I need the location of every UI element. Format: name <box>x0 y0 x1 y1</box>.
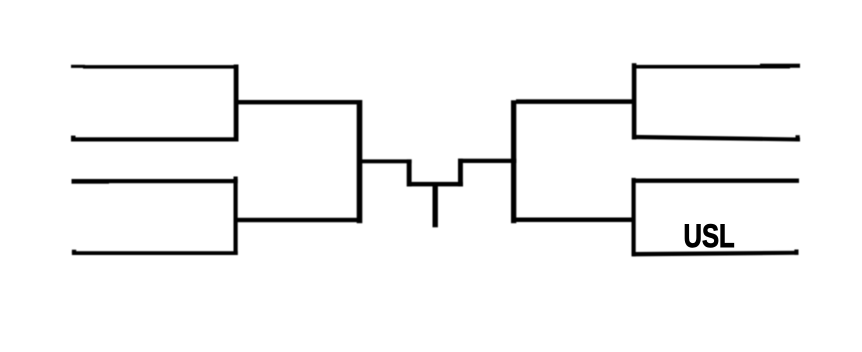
wire: QF3 join vertical <box>632 63 637 139</box>
wire: QF2 bottom team line left tick <box>72 250 76 254</box>
wire: QF3 top team line thin lead right <box>760 64 800 68</box>
wire: QF4 winner line <box>516 218 632 223</box>
wire: QF2 bottom team line <box>72 251 238 255</box>
wire: left step-down vertical <box>407 159 412 186</box>
wire: right step-down vertical <box>458 159 463 187</box>
wire: left final line <box>362 159 412 163</box>
wire: QF4 bottom team line end tick <box>794 250 798 255</box>
svg-text:USL: USL <box>684 219 735 254</box>
wire: QF3 top team line main <box>632 65 790 69</box>
wire: QF1 join vertical <box>234 65 239 141</box>
wire: right final line <box>458 159 516 163</box>
wire: QF3 bottom team line end tick <box>796 135 800 141</box>
wire: QF2 top team line thick lead <box>72 180 110 184</box>
wire: QF4 top team line <box>632 179 799 183</box>
wire: QF1 top team line thin lead <box>71 65 85 68</box>
wire: right semifinal vertical <box>511 100 516 223</box>
wire: QF4 bottom team line (slight slope) <box>632 251 799 257</box>
wire: QF2 join vertical <box>234 177 238 256</box>
wire: QF2 winner line <box>238 218 363 222</box>
wire: QF3 winner line <box>516 99 636 104</box>
wire: QF4 join vertical <box>632 178 636 256</box>
wire: left semifinal vertical <box>357 100 363 223</box>
wire: QF3 bottom team line (slight slope) <box>632 135 800 142</box>
wire: QF1 bottom team line left tick <box>71 136 76 140</box>
wire: QF1 bottom team line <box>71 137 239 141</box>
wire: middle champion horizontal <box>407 182 463 187</box>
wire: QF1 top team line main <box>83 65 239 69</box>
wire: champion stem vertical <box>433 183 438 227</box>
wire: QF1 winner line <box>238 100 362 104</box>
wire: QF2 top team line <box>72 179 238 183</box>
